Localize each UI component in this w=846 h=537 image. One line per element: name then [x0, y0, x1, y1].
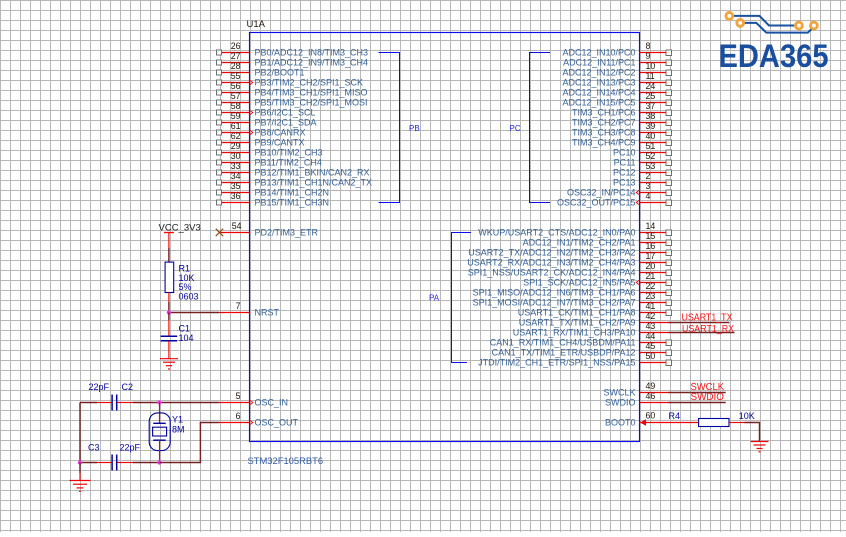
svg-text:PB4/TIM3_CH1/SPI1_MISO: PB4/TIM3_CH1/SPI1_MISO: [255, 88, 368, 98]
wire R1 to node: [168, 293, 170, 313]
svg-text:BOOT0: BOOT0: [605, 418, 636, 428]
svg-text:2: 2: [646, 171, 651, 181]
pin 2 PC13: [613, 171, 672, 188]
pin 59 PB7/I2C1_SDA: [217, 111, 317, 128]
svg-text:22: 22: [646, 281, 656, 291]
svg-text:58: 58: [231, 101, 241, 111]
svg-text:R4: R4: [669, 411, 681, 421]
svg-text:OSC_OUT: OSC_OUT: [255, 418, 299, 428]
svg-text:23: 23: [646, 291, 656, 301]
pin 61 PB8/CANRX: [217, 121, 306, 138]
svg-text:44: 44: [646, 331, 656, 341]
pin 26 PB0/ADC12_IN8/TIM3_CH3: [217, 41, 369, 58]
svg-text:USART2_RX/ADC12_IN3/TIM2_CH4/P: USART2_RX/ADC12_IN3/TIM2_CH4/PA3: [467, 258, 635, 268]
wire USART1_RX net: [669, 332, 735, 334]
svg-text:40: 40: [646, 131, 656, 141]
IC U1A STM32F105RBT6 body: [250, 33, 640, 442]
svg-text:PB10/TIM2_CH3: PB10/TIM2_CH3: [255, 148, 323, 158]
svg-text:STM32F105RBT6: STM32F105RBT6: [248, 455, 324, 466]
svg-text:PB12/TIM1_BKIN/CAN2_RX: PB12/TIM1_BKIN/CAN2_RX: [255, 168, 370, 178]
svg-text:4: 4: [646, 191, 651, 201]
svg-text:PC10: PC10: [613, 148, 636, 158]
C2 labels 22pF C2: [89, 382, 134, 392]
svg-text:PB: PB: [409, 124, 420, 133]
svg-text:22pF: 22pF: [120, 442, 141, 452]
pin 55 PB3/TIM2_CH2/SPI1_SCK: [217, 71, 364, 88]
svg-text:PB8/CANRX: PB8/CANRX: [255, 128, 306, 138]
svg-text:ADC12_IN1/TIM2_CH2/PA1: ADC12_IN1/TIM2_CH2/PA1: [523, 238, 636, 248]
pin 44 CAN1_RX/TIM1_CH4/USBDM/PA11: [490, 331, 672, 348]
svg-text:SPI1_MISO/ADC12_IN6/TIM3_CH1/P: SPI1_MISO/ADC12_IN6/TIM3_CH1/PA6: [473, 288, 636, 298]
svg-text:USART1_TX/TIM1_CH2/PA9: USART1_TX/TIM1_CH2/PA9: [519, 318, 636, 328]
capacitor C1: [161, 336, 178, 340]
svg-text:PC12: PC12: [613, 168, 636, 178]
svg-text:25: 25: [646, 91, 656, 101]
pin 24 ADC12_IN14/PC4: [562, 81, 671, 98]
svg-text:21: 21: [646, 271, 656, 281]
pin 40 TIM3_CH4/PC9: [572, 131, 672, 148]
svg-text:ADC12_IN13/PC3: ADC12_IN13/PC3: [562, 78, 635, 88]
pin 8 ADC12_IN10/PC0: [562, 41, 671, 58]
svg-text:45: 45: [646, 341, 656, 351]
wire left rail to C3: [80, 462, 112, 464]
junction crystal top: [157, 400, 161, 404]
svg-text:PB1/ADC12_IN9/TIM3_CH4: PB1/ADC12_IN9/TIM3_CH4: [255, 58, 369, 68]
capacitor C2: [112, 395, 117, 411]
svg-text:ADC12_IN10/PC0: ADC12_IN10/PC0: [562, 48, 635, 58]
svg-text:42: 42: [646, 311, 656, 321]
pin 23 SPI1_MOSI/ADC12_IN7/TIM3_CH2/PA7: [473, 291, 672, 308]
pin 42 USART1_TX/TIM1_CH2/PA9: [519, 311, 669, 328]
EDA365 logo pads: [726, 13, 817, 29]
svg-text:52: 52: [646, 151, 656, 161]
svg-text:26: 26: [231, 41, 241, 51]
pin 9 ADC12_IN11/PC1: [563, 51, 671, 68]
pin 53 PC12: [613, 161, 672, 178]
svg-text:TIM3_CH1/PC6: TIM3_CH1/PC6: [572, 108, 636, 118]
pin 52 PC11: [614, 151, 672, 168]
svg-text:OSC32_IN/PC14: OSC32_IN/PC14: [567, 188, 636, 198]
svg-text:33: 33: [231, 161, 241, 171]
svg-text:35: 35: [231, 181, 241, 191]
svg-text:PC: PC: [510, 124, 521, 133]
ground below C1: [160, 359, 178, 369]
svg-text:24: 24: [646, 81, 656, 91]
svg-text:ADC12_IN14/PC4: ADC12_IN14/PC4: [562, 88, 635, 98]
svg-text:54: 54: [232, 221, 242, 231]
node PC port bracket: [510, 53, 551, 203]
svg-text:TIM3_CH3/PC8: TIM3_CH3/PC8: [572, 128, 636, 138]
svg-text:8M: 8M: [172, 424, 185, 434]
resistor R1: [165, 262, 174, 292]
svg-text:46: 46: [646, 391, 656, 401]
svg-text:20: 20: [646, 261, 656, 271]
pin 60 BOOT0: [605, 411, 669, 428]
svg-text:U1A: U1A: [247, 19, 266, 30]
pin 51 PC10: [613, 141, 672, 158]
wire BOOT0 to R4: [669, 422, 699, 424]
svg-text:C2: C2: [122, 382, 134, 392]
svg-text:SWDIO: SWDIO: [605, 398, 636, 408]
crystal Y1: [149, 413, 170, 451]
wire SWCLK net: [669, 392, 726, 394]
svg-text:39: 39: [646, 121, 656, 131]
junction ground rail: [78, 460, 82, 464]
ground below R4: [751, 442, 769, 452]
svg-text:WKUP/USART2_CTS/ADC12_IN0/PA0: WKUP/USART2_CTS/ADC12_IN0/PA0: [478, 228, 635, 238]
C3 labels: [88, 442, 141, 452]
junction NRST node: [167, 310, 171, 314]
pin 25 ADC12_IN15/PC5: [562, 91, 671, 108]
wire crystal top lead: [159, 403, 161, 424]
svg-text:SPI1_SCK/ADC12_IN5/PA5: SPI1_SCK/ADC12_IN5/PA5: [523, 278, 635, 288]
pin 20 SPI1_NSS/USART2_CK/ADC12_IN4/PA4: [468, 261, 672, 278]
pin 15 ADC12_IN1/TIM2_CH2/PA1: [523, 231, 672, 248]
svg-text:ADC12_IN11/PC1: ADC12_IN11/PC1: [563, 58, 635, 68]
svg-text:17: 17: [646, 251, 656, 261]
svg-text:0603: 0603: [179, 292, 199, 302]
pin 29 PB10/TIM2_CH3: [217, 141, 323, 158]
svg-text:60: 60: [646, 411, 656, 421]
svg-text:PB13/TIM1_CH1N/CAN2_TX: PB13/TIM1_CH1N/CAN2_TX: [255, 178, 373, 188]
pin 3 OSC32_IN/PC14: [567, 181, 672, 198]
pin 41 USART1_CK/TIM1_CH1/PA8: [518, 301, 672, 318]
svg-text:59: 59: [231, 111, 241, 121]
svg-text:R1: R1: [179, 263, 191, 273]
svg-text:USART1_TX: USART1_TX: [682, 312, 733, 323]
svg-text:JTDI/TIM2_CH1_ETR/SPI1_NSS/PA1: JTDI/TIM2_CH1_ETR/SPI1_NSS/PA15: [478, 358, 635, 368]
svg-text:38: 38: [646, 111, 656, 121]
wire node to C1: [168, 313, 170, 336]
node PB port bracket: [379, 53, 420, 203]
pin 49 SWCLK: [603, 381, 668, 398]
pin 33 PB12/TIM1_BKIN/CAN2_RX: [217, 161, 370, 178]
pin 28 PB2/BOOT1: [217, 61, 305, 78]
pin 11 ADC12_IN13/PC3: [562, 71, 671, 88]
junction crystal bottom: [157, 460, 161, 464]
wire C3 to crystal bottom: [117, 462, 159, 464]
svg-text:USART1_CK/TIM1_CH1/PA8: USART1_CK/TIM1_CH1/PA8: [518, 308, 636, 318]
svg-text:50: 50: [646, 351, 656, 361]
svg-text:Y1: Y1: [172, 414, 183, 424]
wire VCC to R1: [168, 248, 170, 262]
R1 labels: [179, 263, 199, 301]
svg-text:PB15/TIM1_CH3N: PB15/TIM1_CH3N: [255, 198, 330, 208]
wire USART1_TX net: [669, 322, 730, 324]
svg-text:27: 27: [231, 51, 241, 61]
svg-text:SPI1_NSS/USART2_CK/ADC12_IN4/P: SPI1_NSS/USART2_CK/ADC12_IN4/PA4: [468, 268, 636, 278]
pin 4 OSC32_OUT/PC15: [557, 191, 672, 208]
pin 21 SPI1_SCK/ADC12_IN5/PA5: [523, 271, 671, 288]
svg-text:10: 10: [646, 61, 656, 71]
pin 43 USART1_RX/TIM1_CH3/PA10: [513, 321, 669, 338]
pin 46 SWDIO: [605, 391, 669, 408]
svg-text:8: 8: [646, 41, 651, 51]
wire left rail to C2: [80, 402, 112, 404]
svg-text:53: 53: [646, 161, 656, 171]
pin 36 PB15/TIM1_CH3N: [217, 191, 330, 208]
pin 35 PB14/TIM1_CH2N: [217, 181, 330, 198]
svg-text:PB14/TIM1_CH2N: PB14/TIM1_CH2N: [255, 188, 330, 198]
svg-text:SWCLK: SWCLK: [603, 388, 635, 398]
svg-text:6: 6: [236, 411, 241, 421]
pin 17 USART2_RX/ADC12_IN3/TIM2_CH4/PA3: [467, 251, 671, 268]
wire rail to ground: [79, 463, 81, 481]
wire C1 to ground: [168, 341, 170, 359]
svg-text:TIM3_CH4/PC9: TIM3_CH4/PC9: [572, 138, 636, 148]
svg-text:104: 104: [179, 333, 194, 343]
pin 30 PB11/TIM2_CH4: [217, 151, 322, 168]
svg-text:41: 41: [646, 301, 656, 311]
pin 16 USART2_TX/ADC12_IN2/TIM2_CH3/PA2: [468, 241, 671, 258]
svg-text:28: 28: [231, 61, 241, 71]
pin 50 JTDI/TIM2_CH1_ETR/SPI1_NSS/PA15: [478, 351, 671, 368]
pin 10 ADC12_IN12/PC2: [562, 61, 671, 78]
wire OSC_OUT net: [160, 423, 220, 463]
wire SWDIO net: [669, 402, 726, 404]
svg-text:OSC32_OUT/PC15: OSC32_OUT/PC15: [557, 198, 636, 208]
C1 labels: [179, 324, 194, 344]
svg-text:3: 3: [646, 181, 651, 191]
svg-text:USART2_TX/ADC12_IN2/TIM2_CH3/P: USART2_TX/ADC12_IN2/TIM2_CH3/PA2: [468, 248, 635, 258]
capacitor C3: [112, 455, 117, 471]
Y1 labels: [172, 414, 185, 434]
svg-text:22pF: 22pF: [89, 382, 110, 392]
pin 14 WKUP/USART2_CTS/ADC12_IN0/PA0: [478, 221, 671, 238]
svg-text:11: 11: [646, 71, 655, 81]
R4 labels: [669, 411, 755, 421]
svg-text:15: 15: [646, 231, 656, 241]
svg-text:C1: C1: [179, 324, 191, 334]
svg-text:OSC_IN: OSC_IN: [255, 398, 289, 408]
pin 34 PB13/TIM1_CH1N/CAN2_TX: [217, 171, 373, 188]
svg-text:CAN1_TX/TIM1_ETR/USBDP/PA12: CAN1_TX/TIM1_ETR/USBDP/PA12: [492, 348, 636, 358]
svg-text:PC11: PC11: [614, 158, 636, 168]
svg-text:5: 5: [236, 391, 241, 401]
svg-text:49: 49: [646, 381, 656, 391]
wire NRST net: [169, 312, 219, 314]
EDA365 logo traces: [733, 16, 812, 33]
svg-text:ADC12_IN12/PC2: ADC12_IN12/PC2: [562, 68, 635, 78]
svg-text:30: 30: [231, 151, 241, 161]
pin 7 NRST: [219, 301, 280, 318]
svg-text:62: 62: [231, 131, 241, 141]
pin 45 CAN1_TX/TIM1_ETR/USBDP/PA12: [492, 341, 672, 358]
svg-text:TIM3_CH2/PC7: TIM3_CH2/PC7: [572, 118, 636, 128]
svg-text:37: 37: [646, 101, 656, 111]
svg-text:10K: 10K: [739, 411, 755, 421]
pin 39 TIM3_CH3/PC8: [572, 121, 672, 138]
svg-text:PA: PA: [429, 294, 440, 303]
wire R4 to ground: [729, 423, 760, 442]
svg-text:PB3/TIM2_CH2/SPI1_SCK: PB3/TIM2_CH2/SPI1_SCK: [255, 78, 364, 88]
pin 37 TIM3_CH1/PC6: [572, 101, 672, 118]
svg-text:PB9/CANTX: PB9/CANTX: [255, 138, 305, 148]
svg-text:57: 57: [231, 91, 241, 101]
wire left oscillator rail: [79, 403, 81, 463]
svg-text:PB6/I2C1_SCL: PB6/I2C1_SCL: [255, 108, 316, 118]
svg-text:14: 14: [646, 221, 656, 231]
svg-text:36: 36: [231, 191, 241, 201]
pin 62 PB9/CANTX: [217, 131, 305, 148]
svg-text:PB2/BOOT1: PB2/BOOT1: [255, 68, 305, 78]
svg-text:NRST: NRST: [255, 308, 280, 318]
resistor R4: [699, 419, 729, 427]
pin 58 PB6/I2C1_SCL: [217, 101, 316, 118]
svg-text:USART1_RX: USART1_RX: [682, 324, 734, 335]
svg-text:61: 61: [231, 121, 241, 131]
svg-text:16: 16: [646, 241, 656, 251]
svg-text:PB11/TIM2_CH4: PB11/TIM2_CH4: [255, 158, 322, 168]
node PA port bracket: [429, 233, 471, 363]
svg-text:29: 29: [231, 141, 241, 151]
pin 54 PD2/TIM3_ETR: [219, 221, 319, 238]
svg-text:55: 55: [231, 71, 241, 81]
svg-text:51: 51: [646, 141, 656, 151]
svg-text:43: 43: [646, 321, 656, 331]
svg-text:SPI1_MOSI/ADC12_IN7/TIM3_CH2/P: SPI1_MOSI/ADC12_IN7/TIM3_CH2/PA7: [473, 298, 636, 308]
pin 27 PB1/ADC12_IN9/TIM3_CH4: [217, 51, 369, 68]
ground below C3 rail: [70, 481, 91, 492]
svg-text:34: 34: [231, 171, 241, 181]
pin 56 PB4/TIM3_CH1/SPI1_MISO: [217, 81, 368, 98]
svg-text:7: 7: [236, 301, 241, 311]
pin 6 OSC_OUT: [219, 411, 299, 428]
svg-text:ADC12_IN15/PC5: ADC12_IN15/PC5: [562, 98, 635, 108]
svg-text:EDA365: EDA365: [719, 38, 829, 74]
svg-text:C3: C3: [88, 442, 100, 452]
svg-text:PB0/ADC12_IN8/TIM3_CH3: PB0/ADC12_IN8/TIM3_CH3: [255, 48, 369, 58]
svg-text:56: 56: [231, 81, 241, 91]
svg-text:CAN1_RX/TIM1_CH4/USBDM/PA11: CAN1_RX/TIM1_CH4/USBDM/PA11: [490, 338, 636, 348]
no-ERC marker X on pin 54: [216, 229, 224, 237]
wire C2 to OSC_IN pin: [117, 402, 219, 404]
svg-text:PC13: PC13: [613, 178, 636, 188]
pin 57 PB5/TIM3_CH2/SPI1_MOSI: [217, 91, 368, 108]
svg-text:SWDIO: SWDIO: [691, 392, 725, 403]
wire crystal bottom lead: [159, 440, 161, 462]
svg-text:PB5/TIM3_CH2/SPI1_MOSI: PB5/TIM3_CH2/SPI1_MOSI: [255, 98, 368, 108]
svg-text:USART1_RX/TIM1_CH3/PA10: USART1_RX/TIM1_CH3/PA10: [513, 328, 636, 338]
pin 22 SPI1_MISO/ADC12_IN6/TIM3_CH1/PA6: [473, 281, 672, 298]
svg-text:PD2/TIM3_ETR: PD2/TIM3_ETR: [255, 228, 319, 238]
pin 5 OSC_IN: [219, 391, 288, 408]
pin 38 TIM3_CH2/PC7: [572, 111, 672, 128]
power bar symbol VCC_3V3: [164, 233, 174, 249]
svg-text:PB7/I2C1_SDA: PB7/I2C1_SDA: [255, 118, 317, 128]
svg-text:9: 9: [646, 51, 651, 61]
